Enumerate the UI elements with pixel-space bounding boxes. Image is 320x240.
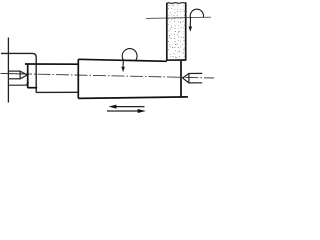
headstock faceplate vertical [7,38,9,103]
workpiece (stepped shaft) outline [25,59,188,98]
workpiece axis centerline [1,73,215,78]
longitudinal feed arrow (left) [109,105,145,109]
headstock dead center U1 (body + cone) [8,71,27,80]
longitudinal feed arrow (right) [107,109,146,113]
grinding wheel rough top edge [167,2,186,5]
wheel rotation arrow [190,9,203,27]
grinding wheel outline with rough top [166,2,187,60]
grinding wheel abrasive stipple [168,5,185,59]
drive dog bracket (top arm, rounded corner, side, bottom) [1,53,78,92]
tailstock dead center U2 (cone + body) [183,73,203,83]
drive pin [8,82,28,85]
workpiece rotation arrow [122,49,137,68]
wheel spindle centerline [146,17,211,18]
